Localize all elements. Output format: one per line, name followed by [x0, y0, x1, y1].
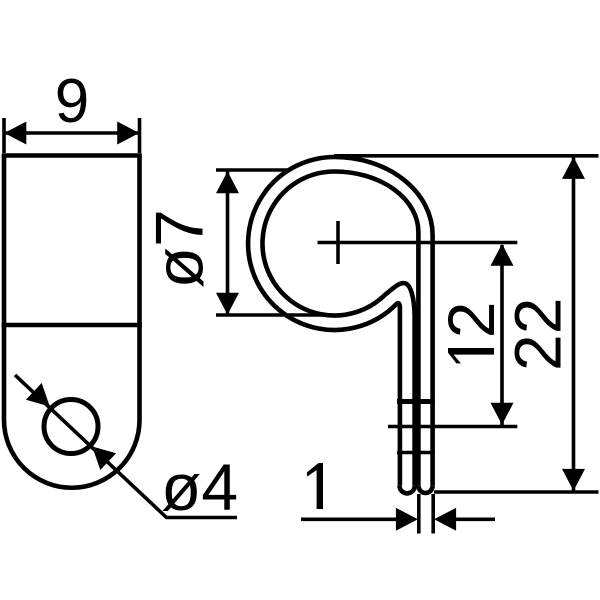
serration tick lower — [397, 451, 435, 455]
mounting hole circle — [44, 400, 98, 454]
dimension 9: extension line left — [2, 118, 6, 153]
dimension 9: left arrowhead — [4, 122, 26, 145]
dimension o7: top extension line — [216, 168, 290, 172]
dimension 22: dimension line — [572, 157, 576, 491]
dimension o7: top arrowhead — [216, 171, 239, 193]
svg-text:ø4: ø4 — [161, 450, 238, 524]
dimension 1: right extension line — [431, 494, 435, 534]
clamp body top edge — [2, 153, 142, 158]
dimension o7: bottom arrowhead — [216, 293, 239, 315]
svg-text:22: 22 — [501, 298, 575, 371]
serration tick upper — [397, 399, 435, 404]
leader line for hole diameter — [15, 375, 237, 518]
dimension 1: right dimension line — [440, 517, 495, 521]
svg-text:ø7: ø7 — [142, 209, 218, 288]
arrowhead upper-left pointing at hole — [26, 383, 50, 406]
dimension 22: top arrowhead — [562, 157, 585, 179]
dimension 9: dimension line — [4, 131, 140, 135]
clamp body outline: sides and rounded bottom — [4, 156, 140, 488]
dimension 12: text (rotated) — [448, 348, 494, 363]
dimension 12: bottom arrowhead — [491, 403, 514, 425]
tail left rounded end cap — [400, 486, 415, 494]
dimension 1: left arrowhead — [396, 508, 418, 531]
center cross vertical — [336, 221, 340, 264]
arrowhead lower-right pointing at hole — [92, 447, 116, 470]
dimension 22: bottom extension line — [434, 490, 599, 494]
band B outer edge: loop top right into tail right line — [335, 157, 433, 486]
svg-text:2: 2 — [434, 302, 508, 339]
dimension 9: right arrowhead — [117, 122, 139, 145]
dimension 1: text — [307, 463, 323, 509]
dimension 22: top extension line — [334, 154, 599, 158]
dimension o7: bottom extension line — [216, 313, 332, 317]
clamp body divider line — [2, 323, 142, 327]
tail right rounded end cap — [418, 486, 432, 493]
dimension o7: dimension line — [226, 172, 230, 316]
dimension 1: left dimension line — [301, 517, 412, 521]
dimension 12: top arrowhead — [491, 244, 514, 266]
dimension 12: bottom extension line — [388, 425, 517, 429]
dimension 22: bottom arrowhead — [562, 469, 585, 491]
dimension 12: dimension line — [500, 245, 504, 425]
band B inner edge — [335, 172, 419, 486]
dimension 1: right arrowhead — [434, 508, 456, 531]
band A outer edge: loop outer circle into tail left line — [248, 157, 400, 486]
center cross horizontal (also extension for 12) — [318, 241, 518, 245]
band A inner edge: loop inner circle, hump, tail inner-left line — [262, 172, 414, 486]
dimension 9: extension line right — [138, 118, 142, 153]
svg-text:9: 9 — [55, 67, 89, 136]
dimension 1: left extension line — [417, 494, 421, 534]
